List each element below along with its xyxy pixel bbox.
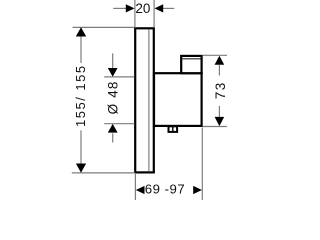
- dim 20 left extension line: [134, 0, 136, 28]
- bottom connector notch: [169, 126, 178, 132]
- svg-text:155/ 155: 155/ 155: [73, 64, 88, 127]
- dim 155 top extension line: [73, 26, 135, 28]
- svg-text:20: 20: [135, 1, 150, 16]
- svg-text:73: 73: [213, 81, 228, 99]
- svg-text:69 -97: 69 -97: [145, 181, 185, 196]
- dim 20 right leader: [162, 7, 174, 9]
- dim 69-97 right arrow: [193, 186, 202, 194]
- dim 48 bottom extension line: [104, 123, 134, 125]
- dim 20 right extension line: [153, 0, 155, 28]
- dim 69-97 left arrow: [136, 186, 145, 194]
- stop ring inner line: [182, 58, 200, 60]
- dim 69-97 left extension line: [134, 174, 136, 200]
- dim 73 top extension line: [203, 54, 227, 56]
- svg-text:Ø 48: Ø 48: [105, 80, 120, 114]
- dim 155 bottom arrow: [76, 164, 86, 173]
- dim 20 left leader: [113, 7, 127, 9]
- dim 48 top arrow: [108, 68, 118, 77]
- dim 48 bottom arrow: [108, 124, 118, 133]
- wall plate: [135, 28, 154, 172]
- dim 73 top arrow: [215, 56, 225, 65]
- dim 73 line upper segment: [218, 65, 220, 76]
- dim 73 bottom extension line: [203, 126, 227, 128]
- dim 48 bottom arrow tail: [112, 133, 114, 142]
- dim 155 top arrow: [76, 27, 86, 36]
- dim 48 top extension line: [104, 76, 134, 78]
- dim 73 bottom arrow: [215, 117, 225, 126]
- dim 155 line upper segment: [80, 28, 82, 63]
- dim 48 top arrow tail: [112, 53, 114, 70]
- dim 73 line lower segment: [218, 106, 220, 118]
- dim 20 left arrow: [126, 4, 135, 12]
- dim 155 line lower segment: [80, 130, 82, 172]
- valve body: [154, 73, 202, 126]
- dim 69-97 right extension line: [201, 128, 203, 201]
- dim 155 bottom extension line: [72, 172, 135, 174]
- wall plate face line: [148, 30, 150, 172]
- stop ring step: [181, 56, 201, 73]
- dim 20 right arrow: [155, 4, 164, 12]
